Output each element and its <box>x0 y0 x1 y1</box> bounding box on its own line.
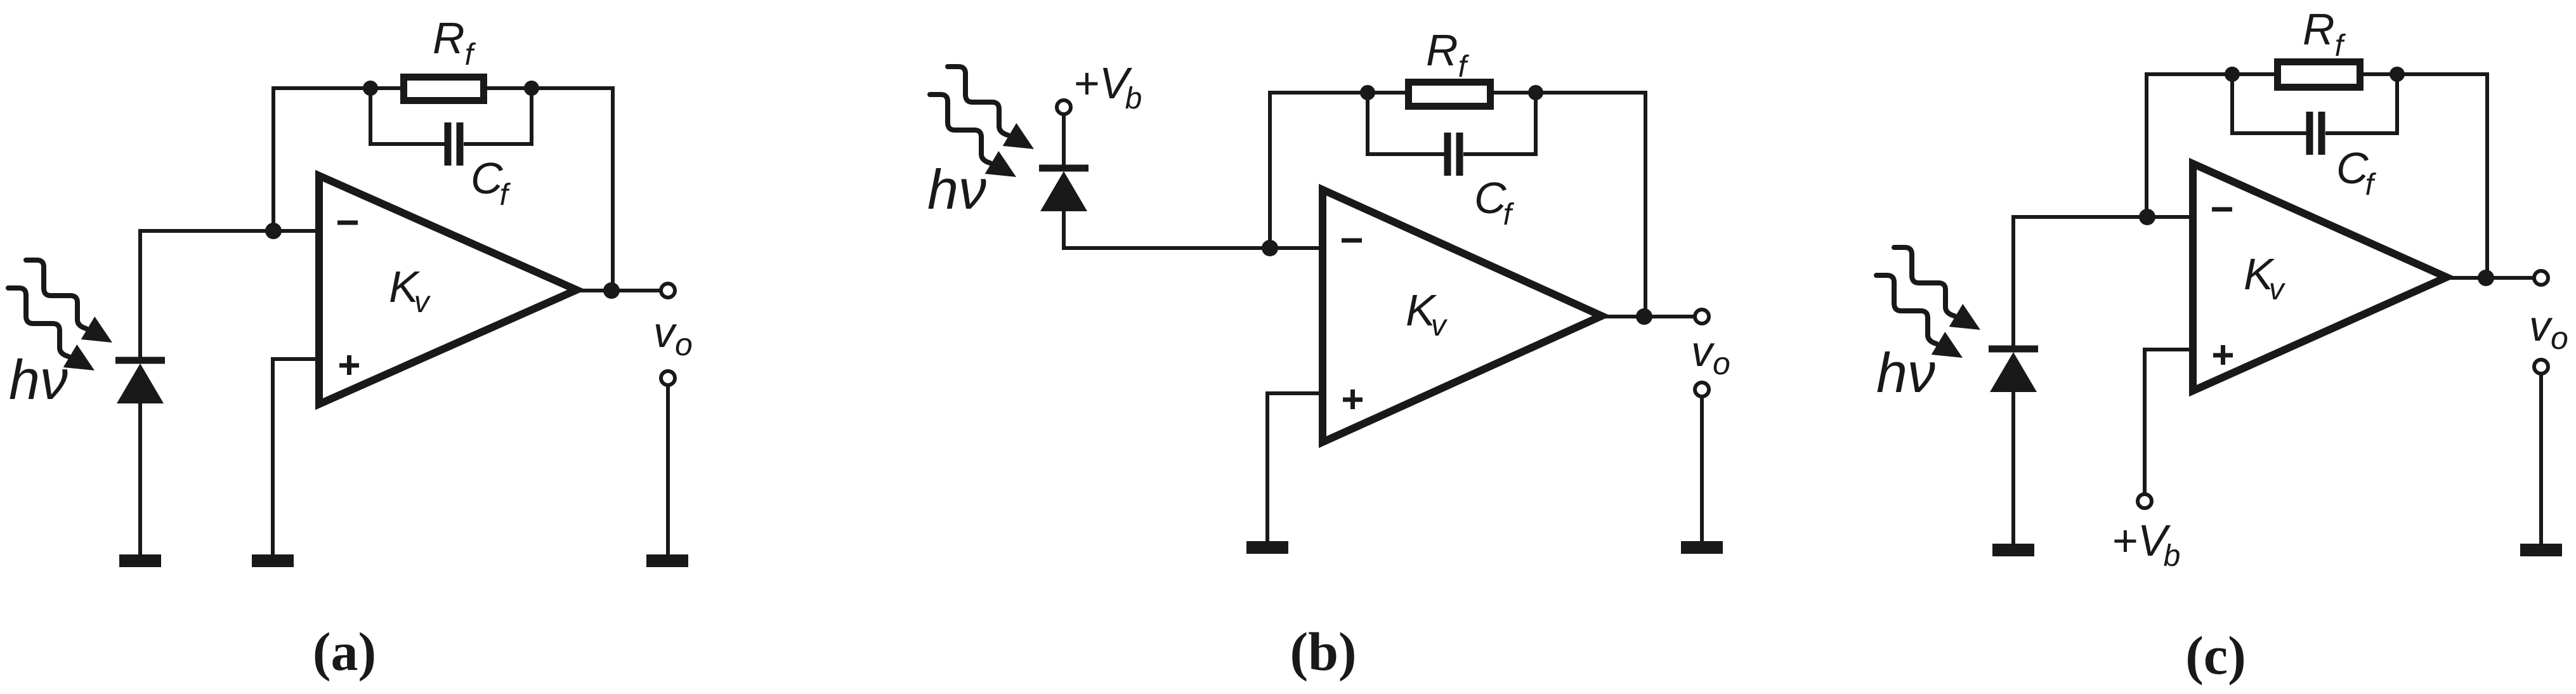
photon ray 1 (c) <box>1894 247 1980 330</box>
op-amp minus sign (b) <box>1342 239 1362 243</box>
wire op-amp output to terminal (b) <box>1602 315 1696 318</box>
node output dot (c) <box>2478 270 2494 286</box>
svg-text:hν: hν <box>927 158 986 221</box>
op-amp U1 triangle (a) <box>319 176 577 404</box>
op-amp U2 triangle (b) <box>1323 190 1602 442</box>
photodiode D2 (b) <box>1039 168 1089 211</box>
ground non-inverting (b) <box>1246 547 1288 548</box>
wire photodiode cathode to inverting node to op-amp (c) <box>2013 217 2189 346</box>
photodiode D3 (c) <box>1989 349 2038 392</box>
resistor Rf body (a) <box>404 77 484 101</box>
terminal output (b) <box>1695 310 1709 324</box>
capacitor C3 plates (c) <box>2310 112 2322 155</box>
photon ray 2 (c) <box>1876 275 1963 358</box>
wire photodiode anode to ground (a) <box>138 403 142 554</box>
wire Cf branch right stub (a) <box>464 88 532 144</box>
wire lower output terminal to ground (b) <box>1700 396 1704 541</box>
wire Cf branch left stub (c) <box>2232 74 2306 133</box>
wire Cf branch left stub (b) <box>1368 93 1444 154</box>
op-amp plus sign (b) <box>1343 390 1363 409</box>
node inverting input dot (a) <box>265 223 282 239</box>
ground output (a) <box>646 560 688 561</box>
photon ray 1 (b) <box>948 67 1034 149</box>
wire non-inverting input to ground (b) <box>1267 393 1319 541</box>
wire non-inverting input to ground (a) <box>273 359 315 554</box>
wire Cf branch right stub (b) <box>1463 93 1536 154</box>
op-amp minus sign (a) <box>337 221 358 225</box>
node junction dot rail-right (b) <box>1528 85 1543 100</box>
wire op-amp output to terminal (a) <box>577 289 662 292</box>
wire feedback loop: node up, top rail, down to output (c) <box>2147 74 2487 278</box>
ground photodiode (a) <box>119 560 161 561</box>
op-amp plus sign (c) <box>2213 345 2233 365</box>
terminal output lower (b) <box>1695 383 1709 396</box>
terminal output lower (a) <box>661 371 675 385</box>
capacitor C2 plates (b) <box>1448 133 1460 176</box>
capacitor C1 plates (a) <box>448 122 460 166</box>
node junction dot rail-right (a) <box>524 81 539 96</box>
svg-text:(a): (a) <box>313 621 376 682</box>
wire lower output terminal to ground (c) <box>2539 374 2543 544</box>
ground non-inverting (a) <box>252 560 294 561</box>
terminal output (a) <box>661 284 675 298</box>
svg-text:(c): (c) <box>2185 625 2246 686</box>
wire photodiode cathode to inverting node to op-amp (a) <box>140 231 315 359</box>
wire non-inverting input to +Vb terminal (c) <box>2145 350 2189 494</box>
svg-text:hν: hν <box>1876 341 1935 404</box>
photon ray 1 (a) <box>26 260 112 343</box>
op-amp U3 triangle (c) <box>2193 164 2447 391</box>
node inverting input dot (c) <box>2139 209 2155 225</box>
resistor Rf body (c) <box>2278 62 2360 88</box>
wire feedback loop: node up, top rail, down to output (b) <box>1270 93 1645 317</box>
wire Cf branch left stub (a) <box>370 88 445 144</box>
wire +Vb terminal to photodiode (b) <box>1062 115 1066 165</box>
ground output (c) <box>2520 549 2562 551</box>
op-amp minus sign (c) <box>2212 207 2232 212</box>
wire photodiode anode to inverting node to op-amp (b) <box>1064 211 1319 248</box>
photon ray 2 (a) <box>8 288 95 370</box>
resistor Rf body (b) <box>1409 82 1491 107</box>
wire Cf branch right stub (c) <box>2325 74 2397 133</box>
svg-text:hν: hν <box>9 348 68 411</box>
wire feedback loop: node up, top rail, down to output (a) <box>273 88 613 291</box>
node output dot (a) <box>603 282 620 299</box>
terminal +Vb (b) <box>1057 100 1071 114</box>
ground photodiode (c) <box>1992 549 2034 551</box>
terminal output lower (c) <box>2534 360 2548 374</box>
node output dot (b) <box>1636 308 1652 325</box>
node junction dot rail-right (c) <box>2390 67 2405 82</box>
svg-text:(b): (b) <box>1290 621 1356 682</box>
node junction dot rail-left (b) <box>1360 85 1375 100</box>
ground output (b) <box>1681 547 1723 548</box>
node junction dot rail-left (a) <box>363 81 378 96</box>
wire op-amp output to terminal (c) <box>2447 276 2535 280</box>
node inverting input dot (b) <box>1262 240 1278 256</box>
terminal output (c) <box>2534 271 2548 285</box>
op-amp plus sign (a) <box>339 355 359 375</box>
terminal +Vb (c) <box>2138 494 2152 508</box>
photodiode D1 (a) <box>115 360 165 403</box>
wire photodiode anode to ground (c) <box>2011 392 2015 544</box>
node junction dot rail-left (c) <box>2225 67 2240 82</box>
photon ray 2 (b) <box>930 95 1016 177</box>
wire lower output terminal to ground (a) <box>666 385 670 554</box>
